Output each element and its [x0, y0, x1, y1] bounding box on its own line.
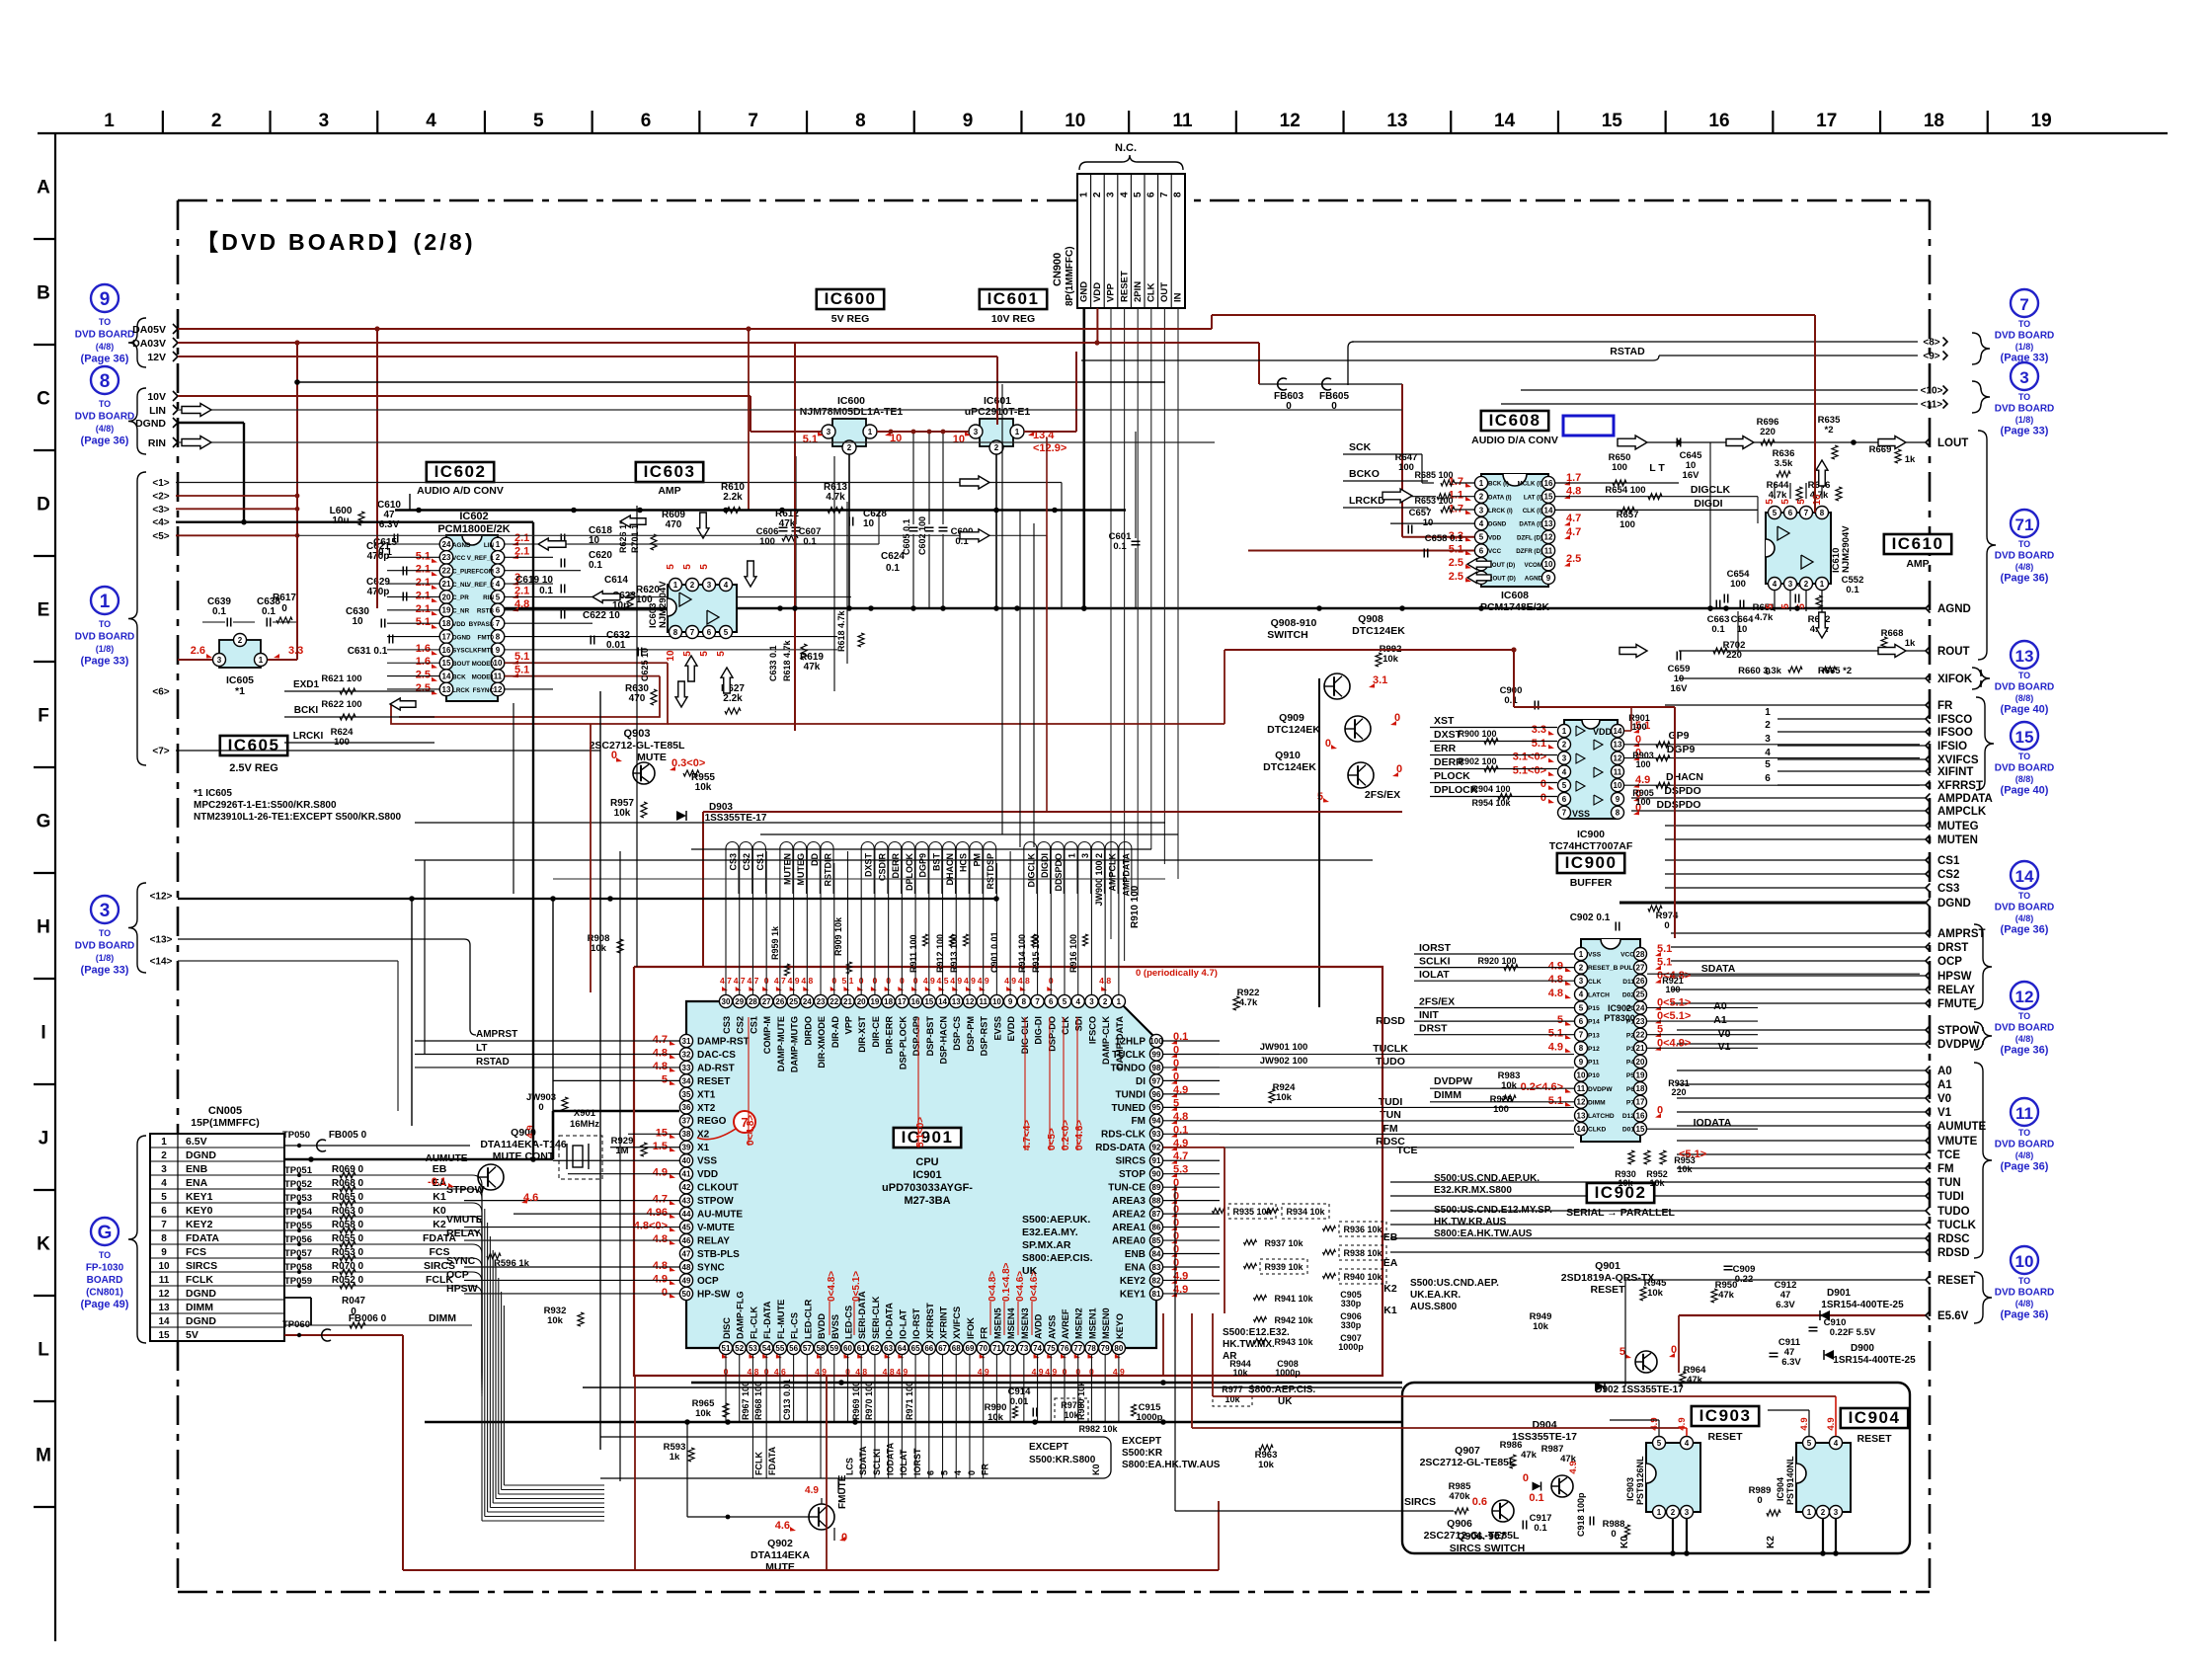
IC602 pin 10 MODE0 — [491, 656, 505, 670]
svg-text:13: 13 — [158, 1303, 170, 1313]
svg-text:J: J — [39, 1129, 49, 1149]
svg-text:EB: EB — [1383, 1231, 1398, 1243]
svg-text:IFOK: IFOK — [966, 1317, 976, 1339]
svg-text:16: 16 — [1708, 111, 1729, 131]
svg-text:FB006 0: FB006 0 — [349, 1313, 387, 1324]
svg-text:REGO: REGO — [697, 1116, 727, 1127]
flag 15 right TO DVD BOARD 8/8 — [2011, 722, 2038, 750]
svg-text:R934 10k: R934 10k — [1286, 1207, 1325, 1217]
blue marker rectangle — [1563, 416, 1614, 436]
svg-text:A0: A0 — [1713, 1000, 1727, 1012]
svg-text:R959 1k: R959 1k — [770, 925, 780, 960]
svg-text:1000p: 1000p — [1338, 1342, 1364, 1352]
capacitor C639 — [226, 618, 228, 627]
svg-text:2: 2 — [238, 636, 243, 645]
svg-text:9: 9 — [496, 646, 501, 655]
svg-text:FL-CS: FL-CS — [790, 1312, 800, 1339]
svg-text:11: 11 — [1614, 767, 1622, 776]
svg-text:4: 4 — [1479, 519, 1484, 528]
wire 12V maroon rail — [178, 356, 997, 357]
svg-text:V_REF_1: V_REF_1 — [467, 555, 495, 562]
svg-text:D904: D904 — [1532, 1419, 1556, 1431]
svg-text:0: 0 — [281, 603, 287, 614]
svg-text:14: 14 — [2015, 867, 2034, 886]
flag 12 right TO DVD BOARD 4/8 — [2011, 982, 2038, 1009]
bottom bus verticals right of CN005 — [481, 1382, 483, 1384]
svg-text:XFRINT: XFRINT — [939, 1306, 949, 1339]
svg-text:CS2: CS2 — [742, 853, 751, 871]
svg-text:TCE: TCE — [1397, 1145, 1418, 1156]
svg-text:FP-1030: FP-1030 — [86, 1263, 124, 1274]
svg-text:9: 9 — [1008, 997, 1013, 1006]
wire stub 5 maroon — [176, 534, 297, 536]
top ruler line — [38, 132, 2168, 134]
capacitor C622 10 and C623 10p — [560, 610, 562, 619]
svg-text:5.1: 5.1 — [416, 550, 431, 562]
svg-text:45: 45 — [682, 1223, 691, 1231]
svg-text:2: 2 — [1579, 964, 1584, 973]
svg-text:16V: 16V — [1683, 470, 1700, 481]
svg-text:0.1: 0.1 — [1711, 624, 1725, 635]
wire IC608 CLK R657 DIGDI — [1555, 509, 1758, 511]
svg-text:28: 28 — [749, 997, 757, 1006]
svg-text:100: 100 — [1665, 985, 1680, 994]
svg-text:(4/8): (4/8) — [2015, 1299, 2034, 1308]
wire IC608 VCC pin6 maroon — [1248, 550, 1474, 552]
wire regulator chain IC600 to IC601 — [877, 431, 969, 433]
wire stub 12 horizontal — [178, 898, 997, 900]
svg-text:PST9140NL: PST9140NL — [1785, 1456, 1795, 1505]
IC902 body — [1581, 939, 1640, 1142]
svg-text:RESET: RESET — [1856, 1433, 1892, 1445]
svg-text:16V: 16V — [1671, 683, 1689, 694]
IC602 pin 18 VDD — [439, 616, 453, 630]
IC902 pin 10 P10 — [1575, 1069, 1588, 1081]
svg-text:LOUT (D): LOUT (D) — [1488, 562, 1515, 569]
svg-text:CS3: CS3 — [729, 853, 739, 871]
svg-text:37: 37 — [682, 1117, 691, 1126]
wires IC901 left pins out — [415, 1040, 679, 1042]
svg-text:P12: P12 — [1588, 1046, 1600, 1053]
svg-text:L T: L T — [1649, 462, 1665, 474]
svg-text:0.1<4.8>: 0.1<4.8> — [1001, 1262, 1012, 1302]
wire RESET long — [1624, 1280, 1626, 1386]
svg-text:19: 19 — [2031, 111, 2052, 131]
svg-text:10k: 10k — [1258, 1460, 1275, 1470]
svg-text:<11>: <11> — [1921, 400, 1942, 411]
svg-text:IC608: IC608 — [1489, 411, 1541, 430]
svg-text:HK.TW.MX.: HK.TW.MX. — [1223, 1339, 1275, 1350]
svg-text:RIN: RIN — [148, 437, 166, 449]
svg-text:AUS.S800: AUS.S800 — [1410, 1302, 1458, 1312]
svg-text:R915 100: R915 100 — [1031, 934, 1041, 973]
svg-text:17: 17 — [442, 632, 451, 641]
svg-text:IFSCO: IFSCO — [1937, 714, 1972, 726]
svg-text:5: 5 — [1557, 1014, 1563, 1026]
svg-text:84: 84 — [1152, 1249, 1161, 1258]
IC608 pin 8 ROUT (D) — [1474, 571, 1487, 584]
svg-text:1SR154-400TE-25: 1SR154-400TE-25 — [1821, 1300, 1904, 1310]
IC610 pins bottom 4-1 — [1769, 578, 1781, 591]
svg-text:RELAY: RELAY — [697, 1235, 730, 1246]
label box IC602 — [427, 462, 494, 482]
svg-text:61: 61 — [857, 1344, 866, 1353]
svg-text:JW900 100 2: JW900 100 2 — [1094, 853, 1104, 907]
svg-text:59: 59 — [829, 1344, 838, 1353]
transistor Q906 — [1492, 1500, 1514, 1522]
svg-text:100: 100 — [1631, 722, 1646, 732]
svg-text:14: 14 — [1577, 1125, 1586, 1134]
flag 8 TO DVD BOARD 4/8 — [91, 366, 118, 394]
svg-text:CLK (I): CLK (I) — [1523, 508, 1542, 515]
svg-text:1: 1 — [161, 1137, 167, 1148]
svg-text:VSS: VSS — [1572, 809, 1590, 819]
right edge net V1 — [1677, 1111, 1926, 1113]
svg-text:A1: A1 — [1713, 1014, 1727, 1026]
svg-text:CS1: CS1 — [755, 853, 765, 871]
right edge net TUN — [1390, 1181, 1926, 1183]
svg-text:38: 38 — [682, 1130, 691, 1139]
svg-text:SCLKI: SCLKI — [872, 1449, 882, 1475]
svg-text:D902 1SS355TE-17: D902 1SS355TE-17 — [1595, 1385, 1684, 1395]
svg-text:46: 46 — [682, 1236, 691, 1245]
svg-text:10: 10 — [352, 616, 363, 627]
svg-text:10k: 10k — [1618, 1178, 1633, 1188]
svg-text:IODATA: IODATA — [1694, 1117, 1732, 1129]
svg-text:0.1: 0.1 — [589, 560, 602, 571]
svg-text:V1: V1 — [1718, 1041, 1731, 1053]
svg-text:10V REG: 10V REG — [991, 313, 1035, 325]
svg-text:D11: D11 — [1622, 979, 1634, 986]
svg-text:TUN-CE: TUN-CE — [1108, 1183, 1145, 1194]
svg-text:EXD1: EXD1 — [293, 679, 320, 690]
svg-text:2: 2 — [161, 1150, 167, 1161]
svg-text:*1 IC605: *1 IC605 — [194, 788, 232, 799]
label box IC603 — [636, 462, 703, 482]
wire stub 4 DGND thick — [176, 521, 533, 523]
svg-text:DSP-CS: DSP-CS — [952, 1016, 962, 1051]
svg-text:TUCLK: TUCLK — [1937, 1220, 1977, 1231]
svg-text:3: 3 — [1080, 853, 1090, 858]
wire stub 14 horizontal — [178, 960, 398, 962]
svg-text:8P(1MMFFC): 8P(1MMFFC) — [1065, 246, 1075, 306]
connector CN005 15P — [150, 1134, 284, 1341]
rotated net labels above IC901 with hook caps — [726, 842, 739, 894]
svg-text:2: 2 — [1562, 741, 1567, 750]
svg-text:75: 75 — [1047, 1344, 1056, 1353]
svg-text:DIR-XMODE: DIR-XMODE — [817, 1016, 827, 1069]
svg-text:S800:AEP.CIS.: S800:AEP.CIS. — [1022, 1252, 1093, 1264]
wire CN005 DGND bus — [284, 1158, 553, 1161]
svg-text:0<4.6>: 0<4.6> — [1074, 1120, 1085, 1150]
svg-text:TUNED: TUNED — [1112, 1103, 1145, 1114]
right edge net 11 — [1501, 403, 1918, 405]
svg-text:R904 100: R904 100 — [1471, 784, 1510, 794]
svg-text:UK: UK — [1022, 1265, 1038, 1277]
svg-text:C605 0.1: C605 0.1 — [902, 518, 911, 555]
svg-text:10: 10 — [2015, 1252, 2034, 1271]
svg-text:FM: FM — [1132, 1116, 1145, 1127]
svg-text:DD: DD — [810, 853, 820, 866]
svg-text:6: 6 — [1765, 773, 1771, 784]
IC608 pin 7 LOUT (D) — [1474, 558, 1487, 571]
hollow arrow into IC602 LIN — [538, 538, 566, 550]
svg-text:34: 34 — [682, 1076, 691, 1085]
svg-text:65: 65 — [911, 1344, 920, 1353]
svg-text:TUN: TUN — [1937, 1177, 1961, 1189]
svg-text:DA03V: DA03V — [132, 338, 166, 350]
svg-text:16: 16 — [1544, 479, 1553, 488]
svg-text:3: 3 — [1685, 1508, 1690, 1517]
svg-text:98: 98 — [1152, 1064, 1161, 1072]
svg-text:IFSOO: IFSOO — [1937, 727, 1973, 739]
svg-text:BCKO: BCKO — [1349, 468, 1380, 480]
IC602 pin 1 LIN — [491, 537, 505, 551]
svg-text:AR: AR — [1223, 1351, 1237, 1362]
svg-text:TUDI: TUDI — [1937, 1191, 1964, 1203]
svg-text:9: 9 — [100, 289, 111, 310]
svg-text:4: 4 — [426, 111, 436, 131]
svg-text:P15: P15 — [1588, 1005, 1600, 1012]
IC902 pin 7 P13 — [1575, 1028, 1588, 1041]
right edge net HPSW — [1671, 975, 1926, 977]
brace for CN005 group — [128, 1136, 146, 1343]
svg-text:5.1: 5.1 — [1548, 1028, 1563, 1040]
svg-text:VSS: VSS — [1588, 952, 1602, 959]
svg-text:DAMP-CLK: DAMP-CLK — [1101, 1016, 1111, 1065]
svg-text:11: 11 — [1172, 111, 1193, 131]
svg-text:88: 88 — [1152, 1197, 1161, 1206]
svg-text:R913 100: R913 100 — [949, 934, 959, 973]
svg-text:10: 10 — [1065, 111, 1085, 131]
svg-text:FM: FM — [1937, 1163, 1954, 1175]
svg-text:DGND: DGND — [1937, 898, 1971, 910]
svg-text:LCS: LCS — [844, 1458, 854, 1475]
svg-text:(Page 33): (Page 33) — [2001, 426, 2049, 437]
svg-text:5.1<0>: 5.1<0> — [915, 1117, 926, 1148]
svg-text:0: 0 — [1325, 738, 1331, 750]
svg-text:BOARD: BOARD — [87, 1275, 123, 1286]
svg-text:RSTDIR: RSTDIR — [824, 853, 833, 887]
svg-text:11: 11 — [1577, 1084, 1586, 1093]
svg-text:<6>: <6> — [152, 687, 169, 698]
wire DA05V drop x382 — [376, 329, 378, 608]
svg-text:JW901 100: JW901 100 — [1260, 1042, 1308, 1053]
svg-text:76: 76 — [1061, 1344, 1069, 1353]
right edge net 9 — [1659, 355, 1918, 356]
IC904 pin wires — [1822, 1519, 1824, 1553]
wire E5.6V vertical — [1678, 1315, 1680, 1373]
hollow arrow after blue box — [1618, 436, 1647, 449]
svg-text:78: 78 — [1087, 1344, 1096, 1353]
svg-text:4.9: 4.9 — [1799, 1417, 1810, 1430]
svg-text:DSP-HACN: DSP-HACN — [939, 1016, 949, 1065]
maroon drop x1030 to DA03V — [1075, 352, 1077, 432]
transistor Q902 mute — [809, 1504, 834, 1530]
svg-text:RDS-CLK: RDS-CLK — [1101, 1130, 1146, 1141]
svg-text:12: 12 — [2015, 988, 2034, 1006]
right edge net OCP — [1671, 960, 1926, 962]
svg-text:5: 5 — [1773, 509, 1777, 517]
right edge net DRST — [1671, 946, 1926, 948]
svg-text:DATA (I): DATA (I) — [1519, 521, 1542, 528]
svg-text:15: 15 — [1544, 493, 1553, 502]
svg-text:9: 9 — [1546, 574, 1551, 583]
svg-text:DSP-GP9: DSP-GP9 — [911, 1016, 921, 1056]
svg-text:DPLOCK: DPLOCK — [905, 853, 914, 892]
svg-text:0: 0 — [967, 1470, 977, 1475]
svg-text:XIFINT: XIFINT — [1937, 766, 1973, 778]
junction dots misc — [838, 1380, 844, 1386]
svg-text:1SS355TE-17: 1SS355TE-17 — [705, 813, 767, 824]
svg-text:13: 13 — [1544, 519, 1553, 528]
svg-text:1: 1 — [1079, 192, 1090, 198]
svg-text:21: 21 — [1636, 1044, 1645, 1053]
svg-text:EVDD: EVDD — [1006, 1016, 1016, 1042]
svg-text:52: 52 — [735, 1344, 744, 1353]
hollow arrows ROUT line — [1619, 645, 1647, 658]
svg-text:Q910: Q910 — [1275, 750, 1301, 761]
svg-text:1: 1 — [1765, 707, 1771, 718]
svg-text:S800:AEP.CIS.: S800:AEP.CIS. — [1248, 1385, 1315, 1395]
svg-text:FL-MUTE: FL-MUTE — [776, 1300, 786, 1339]
svg-text:2: 2 — [496, 553, 501, 562]
svg-text:SERIAL → PARALLEL: SERIAL → PARALLEL — [1566, 1207, 1675, 1219]
svg-text:9: 9 — [161, 1247, 167, 1258]
svg-text:SIRCS SWITCH: SIRCS SWITCH — [1450, 1543, 1525, 1554]
svg-text:13: 13 — [1614, 741, 1622, 750]
svg-text:DSP-PLOCK: DSP-PLOCK — [898, 1016, 908, 1069]
svg-text:2.5V REG: 2.5V REG — [229, 762, 278, 774]
wire into IC608 pin2 — [1437, 494, 1451, 500]
svg-text:10k: 10k — [591, 943, 607, 954]
svg-text:BCK: BCK — [452, 673, 466, 680]
svg-text:EA: EA — [1383, 1257, 1398, 1269]
svg-text:1: 1 — [1579, 950, 1584, 959]
IC901 body — [686, 1001, 1156, 1348]
label box IC904 — [1841, 1408, 1908, 1428]
svg-text:77: 77 — [1073, 1344, 1082, 1353]
svg-text:TO: TO — [2018, 1276, 2030, 1286]
svg-text:SCLKI: SCLKI — [1419, 956, 1451, 968]
IC902 pin 22 P2 — [1634, 1028, 1647, 1041]
svg-text:FR: FR — [1937, 700, 1953, 712]
svg-text:D900: D900 — [1851, 1343, 1874, 1354]
svg-text:MODE1: MODE1 — [472, 673, 495, 680]
svg-text:CS1: CS1 — [1937, 855, 1960, 867]
svg-text:FCS: FCS — [186, 1246, 206, 1258]
svg-text:24: 24 — [1636, 1003, 1645, 1012]
maroon bottom rail 5V — [402, 1335, 404, 1570]
hollow arrow AGND region — [1770, 562, 1797, 575]
svg-text:15: 15 — [924, 997, 933, 1006]
IC902 pin 17 P7 — [1634, 1095, 1647, 1108]
svg-text:R909 10k: R909 10k — [833, 916, 843, 956]
svg-text:HCS: HCS — [959, 853, 969, 872]
svg-text:3.5k: 3.5k — [1775, 458, 1793, 469]
svg-text:3: 3 — [496, 567, 501, 576]
right edge net RDSC — [1390, 1237, 1926, 1239]
svg-text:22: 22 — [829, 997, 838, 1006]
wires to stubs 8 9 top right — [1348, 342, 1354, 385]
label box IC900 — [1557, 853, 1624, 873]
svg-text:1: 1 — [1117, 997, 1122, 1006]
svg-text:IO-LAT: IO-LAT — [898, 1309, 908, 1339]
svg-text:LATCH: LATCH — [1588, 991, 1610, 998]
IC902 pin 9 P11 — [1575, 1055, 1588, 1068]
svg-text:3.1: 3.1 — [1373, 674, 1387, 686]
svg-text:C658 0.1: C658 0.1 — [1425, 533, 1463, 544]
svg-text:OCP: OCP — [446, 1269, 469, 1281]
svg-text:71: 71 — [992, 1344, 1001, 1353]
svg-text:DVDPW: DVDPW — [1434, 1075, 1472, 1087]
svg-text:47: 47 — [682, 1249, 691, 1258]
svg-text:3: 3 — [161, 1164, 167, 1175]
svg-text:6: 6 — [926, 1470, 936, 1475]
svg-text:0.22F 5.5V: 0.22F 5.5V — [1830, 1327, 1876, 1338]
svg-text:DIGDI: DIGDI — [1040, 853, 1050, 878]
svg-text:8: 8 — [496, 632, 501, 641]
svg-text:XFRRST: XFRRST — [1937, 780, 1983, 792]
right edge net XIFOK — [1679, 677, 1926, 679]
svg-text:R912 100: R912 100 — [935, 934, 945, 973]
svg-text:*2: *2 — [1825, 425, 1834, 436]
svg-text:4.8<0>: 4.8<0> — [634, 1221, 668, 1232]
svg-text:TO: TO — [2018, 319, 2030, 329]
svg-text:(8/8): (8/8) — [2015, 693, 2034, 703]
svg-text:10k: 10k — [614, 808, 631, 819]
svg-text:V0: V0 — [1937, 1093, 1951, 1105]
IC902 pin 23 P1 — [1634, 1015, 1647, 1028]
svg-text:DVD BOARD: DVD BOARD — [1995, 903, 2055, 913]
svg-text:0.22: 0.22 — [1735, 1274, 1754, 1285]
svg-text:66: 66 — [924, 1344, 933, 1353]
svg-text:DIR-ERR: DIR-ERR — [885, 1016, 895, 1055]
svg-text:S500:US.CND.AEP.: S500:US.CND.AEP. — [1410, 1278, 1499, 1289]
svg-text:1: 1 — [1657, 1508, 1662, 1517]
transistor Q908 — [1324, 673, 1350, 699]
svg-text:21: 21 — [843, 997, 852, 1006]
svg-text:1SR154-400TE-25: 1SR154-400TE-25 — [1833, 1355, 1916, 1366]
svg-text:AGND: AGND — [452, 542, 471, 549]
maroon drop x805 — [794, 343, 796, 731]
right braces — [1972, 333, 1990, 364]
svg-text:MCLK (I): MCLK (I) — [1518, 481, 1542, 488]
svg-text:AGND: AGND — [1937, 603, 1971, 615]
wire CN900 pin1 GND down — [1083, 308, 1086, 608]
svg-text:TUNDI: TUNDI — [1115, 1089, 1145, 1100]
svg-text:INIT: INIT — [1419, 1009, 1439, 1021]
svg-text:MUTE CONT: MUTE CONT — [493, 1150, 555, 1162]
svg-text:SWITCH: SWITCH — [1267, 629, 1307, 641]
svg-text:0<5.1>: 0<5.1> — [1657, 996, 1691, 1008]
svg-text:2.1: 2.1 — [416, 564, 431, 576]
svg-text:0<5.1>: 0<5.1> — [851, 1271, 862, 1302]
IC902 pin 12 DIMM — [1575, 1095, 1588, 1108]
svg-text:RESET: RESET — [1707, 1431, 1743, 1443]
svg-text:IC900: IC900 — [1577, 829, 1605, 840]
right edge net 10 — [1521, 389, 1918, 391]
svg-text:14: 14 — [1614, 727, 1622, 736]
transistor Q903 — [633, 762, 655, 784]
svg-text:6: 6 — [1788, 509, 1793, 517]
wire into Q902 base — [686, 1422, 688, 1517]
svg-text:<5>: <5> — [152, 531, 169, 542]
svg-text:MSEN0: MSEN0 — [1101, 1307, 1111, 1339]
svg-text:CS2: CS2 — [736, 1016, 746, 1034]
svg-text:DVD BOARD: DVD BOARD — [75, 412, 135, 423]
wire DIGDI drop to bundle — [1033, 523, 1035, 847]
